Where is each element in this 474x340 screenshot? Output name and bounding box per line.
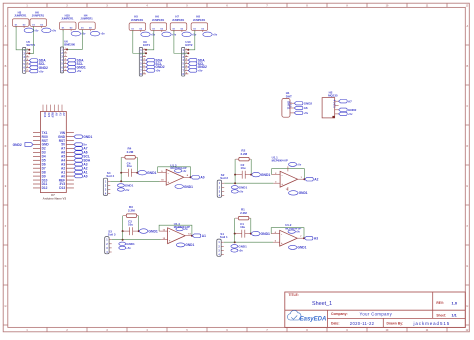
svg-text:+5v: +5v	[192, 34, 197, 37]
svg-text:+5v: +5v	[198, 69, 203, 73]
capacitor C2 10u	[241, 163, 246, 178]
svg-text:SHT71: SHT71	[26, 43, 35, 47]
EasyEDA logo	[287, 310, 326, 322]
wire resistor right leg	[136, 157, 138, 172]
net flag A0 on U7 right pin A0	[74, 174, 88, 178]
svg-text:Arduino Nano V3: Arduino Nano V3	[43, 197, 67, 201]
header H1 DHT	[282, 91, 294, 117]
svg-text:A3: A3	[314, 237, 318, 241]
svg-text:2.2M: 2.2M	[241, 152, 248, 156]
svg-text:A2: A2	[61, 166, 65, 170]
svg-text:+5v: +5v	[34, 30, 39, 33]
op-amp U1.4 MCP6004	[159, 222, 192, 243]
svg-text:C: C	[466, 105, 468, 108]
svg-text:+: +	[167, 180, 169, 184]
svg-text:1: 1	[186, 48, 187, 50]
svg-text:REV:: REV:	[436, 301, 443, 305]
op-amp U1.3 MCP6004	[158, 163, 191, 185]
net flag SCL on U6 pin 5	[67, 62, 83, 66]
header H5	[129, 14, 146, 32]
net flag A6 on H1	[294, 106, 308, 110]
svg-text:7: 7	[65, 69, 66, 71]
net flag +5v on sensor pin 3	[119, 246, 131, 250]
op-amp U1.2 MCP6004	[271, 223, 304, 246]
svg-text:7: 7	[27, 70, 28, 72]
net flag GND1 at node	[139, 229, 158, 234]
svg-text:6: 6	[27, 66, 28, 68]
svg-text:D8: D8	[42, 170, 46, 174]
svg-text:D10: D10	[42, 178, 48, 182]
svg-text:-: -	[169, 229, 170, 233]
net flag GND1 on sensor pin 2	[231, 186, 247, 190]
svg-text:A7: A7	[61, 147, 65, 151]
net flag GND1 at node	[252, 172, 271, 177]
net flag +5v on H2	[339, 112, 353, 116]
net flag GND1 on sensor pin 2	[117, 184, 133, 188]
svg-text:A2: A2	[83, 166, 87, 170]
net flag A3 output	[304, 236, 318, 240]
svg-text:A6: A6	[83, 151, 87, 155]
svg-text:D9: D9	[42, 174, 46, 178]
svg-text:GND1: GND1	[147, 171, 157, 175]
svg-text:10u: 10u	[240, 225, 245, 229]
svg-text:3: 3	[27, 56, 28, 58]
wire resistor right leg	[250, 159, 252, 174]
svg-text:DHT: DHT	[286, 95, 292, 99]
header H3	[12, 10, 29, 28]
resistor R4 2.2M	[122, 147, 137, 159]
svg-text:7: 7	[144, 69, 145, 71]
svg-text:A7: A7	[83, 147, 87, 151]
svg-text:REF: REF	[59, 178, 65, 182]
net flag GND1 at node	[251, 231, 270, 236]
svg-text:5: 5	[144, 62, 145, 64]
svg-text:GND1: GND1	[299, 191, 308, 195]
svg-text:SDA: SDA	[83, 159, 90, 163]
+5V net flag under H7	[182, 32, 197, 37]
header H4	[79, 14, 96, 32]
wire from header pin to U9 pin 2	[133, 30, 147, 54]
svg-text:8: 8	[186, 72, 187, 74]
+5V net flag under H10	[71, 31, 86, 36]
svg-text:5: 5	[27, 63, 28, 65]
net flag GND1 op-amp V- pin 11	[286, 187, 308, 195]
svg-text:GND1: GND1	[298, 246, 307, 250]
svg-text:H5: H5	[134, 14, 138, 18]
svg-text:A5: A5	[61, 155, 65, 159]
svg-text:GND1: GND1	[83, 135, 92, 139]
net flag +5v on H1	[294, 111, 308, 115]
net flag GND1 on sensor pin 2	[231, 245, 247, 249]
net flag SCL on U9 pin 5	[146, 62, 162, 66]
+5V net flag under H6	[162, 32, 177, 37]
svg-text:GND1: GND1	[148, 229, 158, 233]
svg-text:D13: D13	[59, 186, 65, 190]
svg-text:U1.4: U1.4	[174, 222, 180, 226]
svg-text:RST: RST	[59, 139, 65, 143]
svg-text:H: H	[5, 305, 7, 308]
svg-text:+5v: +5v	[155, 69, 160, 73]
svg-text:Soil 4: Soil 4	[106, 174, 114, 178]
svg-text:-: -	[168, 171, 169, 175]
connector U9 EXT1	[139, 40, 150, 76]
+5V net flag under H3	[24, 28, 39, 33]
svg-text:A2: A2	[314, 178, 318, 182]
net flag 5v on U7 right pin 5V	[74, 143, 87, 147]
svg-text:GND: GND	[42, 143, 50, 147]
wire node row	[234, 233, 252, 235]
svg-text:10u: 10u	[241, 166, 246, 170]
svg-text:1: 1	[144, 48, 145, 50]
svg-text:+5v: +5v	[151, 34, 156, 37]
svg-text:C: C	[5, 105, 7, 108]
svg-text:MQ135: MQ135	[328, 93, 338, 97]
wire resistor left leg	[234, 218, 236, 233]
net flag SDA on U10 pin 4	[188, 58, 205, 62]
net flag GND2 on U10 pin 6	[188, 65, 207, 69]
wire node row	[234, 174, 252, 176]
svg-text:+: +	[281, 241, 283, 245]
svg-text:A0: A0	[83, 174, 87, 178]
svg-text:1.0: 1.0	[452, 300, 458, 305]
svg-text:D12: D12	[42, 186, 48, 190]
svg-text:D4: D4	[42, 155, 46, 159]
svg-text:+5v: +5v	[52, 30, 57, 33]
svg-text:2.2M: 2.2M	[127, 150, 134, 154]
wire resistor left leg	[122, 216, 124, 231]
svg-text:H4: H4	[84, 14, 88, 18]
svg-text:3: 3	[144, 55, 145, 57]
wire from header pin to U10 pin 2	[174, 30, 189, 54]
net flag A2 on U7 right pin A2	[74, 166, 88, 170]
svg-text:G: G	[5, 265, 7, 268]
wire from header pin to U9 pin 1	[145, 30, 154, 50]
wire node vertical	[120, 173, 122, 182]
IC U7 Arduino Nano V3 body	[33, 105, 74, 201]
net flag GND1 at node	[138, 170, 157, 175]
net flag GND1 on U7 right pin GND	[74, 135, 93, 139]
svg-text:G: G	[466, 265, 468, 268]
svg-text:GND2: GND2	[13, 143, 22, 147]
header H10	[59, 14, 76, 32]
wire sensor signal to op-amp in+	[224, 234, 273, 244]
svg-text:6: 6	[144, 66, 145, 68]
svg-text:U1.1: U1.1	[272, 156, 278, 160]
connector S1 Soil 1	[217, 232, 228, 257]
svg-text:5v: 5v	[83, 143, 87, 147]
svg-text:Drawn By:: Drawn By:	[387, 322, 404, 326]
svg-text:VIN: VIN	[60, 131, 66, 135]
net flag SCL on U7 right pin A5	[74, 155, 90, 159]
svg-text:H: H	[466, 305, 468, 308]
svg-text:D6: D6	[42, 162, 46, 166]
net flag GND1 on U6 pin 6	[67, 65, 86, 69]
svg-text:A0: A0	[200, 176, 204, 180]
svg-text:D3: D3	[42, 151, 46, 155]
wire from header pin to U10 pin 1	[187, 30, 195, 50]
svg-text:GND2: GND2	[304, 101, 313, 105]
header H8	[191, 14, 208, 32]
svg-text:GND1: GND1	[238, 245, 247, 249]
svg-text:D11: D11	[42, 182, 48, 186]
svg-text:GND1: GND1	[185, 243, 194, 247]
svg-text:A4: A4	[61, 159, 65, 163]
wire feedback loop	[158, 167, 192, 179]
net flag SCL on U10 pin 5	[188, 62, 204, 66]
header H6	[150, 14, 167, 32]
svg-text:GND1: GND1	[261, 173, 271, 177]
svg-text:+5v: +5v	[39, 69, 44, 73]
svg-text:1: 1	[27, 48, 28, 50]
wire sensor signal to op-amp in+	[224, 175, 273, 185]
net flag GND2 on U9 pin 6	[146, 65, 165, 69]
wire node row	[122, 230, 140, 232]
net flag GND1 op-amp V-	[176, 243, 194, 247]
svg-text:H10: H10	[65, 14, 71, 18]
svg-text:+: +	[169, 238, 171, 242]
svg-text:A6: A6	[304, 106, 308, 110]
svg-text:+5v: +5v	[77, 69, 82, 73]
net flag GND2 on U5 pin 6	[29, 66, 48, 70]
net flag GND1 op-amp V-	[288, 245, 306, 249]
svg-text:-: -	[282, 173, 283, 177]
svg-text:3: 3	[65, 55, 66, 57]
wire feedback loop	[272, 169, 306, 181]
net flag GND2 on U7 GND left pin	[13, 143, 33, 147]
svg-text:10u: 10u	[127, 164, 132, 168]
header H6	[30, 10, 47, 28]
net flag +5v op-amp V+	[288, 230, 301, 234]
net flag +5v on U10 pin 7	[188, 69, 203, 73]
connector U5 SHT71	[23, 40, 36, 73]
svg-text:D: D	[466, 145, 468, 148]
wire resistor left leg	[234, 159, 236, 174]
wire from header pin to U6 pin 1	[66, 30, 82, 51]
net flag GND1 op-amp V-	[175, 185, 193, 189]
svg-text:RX0: RX0	[42, 135, 48, 139]
svg-text:A: A	[466, 25, 468, 28]
svg-text:D2: D2	[42, 147, 46, 151]
net flag A6 on U7 right pin A6	[74, 151, 88, 155]
wire feedback loop	[159, 225, 193, 237]
capacitor C1 10u	[240, 222, 245, 237]
svg-text:1/1: 1/1	[452, 313, 457, 317]
svg-text:GND1: GND1	[184, 185, 193, 189]
+5V net flag under H4	[90, 31, 105, 36]
net flag +5v op-amp V+	[175, 169, 188, 173]
svg-text:1: 1	[65, 48, 66, 50]
resistor R2 2.2M	[236, 149, 251, 161]
svg-text:Soil 3: Soil 3	[108, 233, 116, 237]
svg-text:H7: H7	[175, 14, 179, 18]
header H2 MQ135	[322, 91, 339, 118]
net flag A7 on U7 right pin A7	[74, 147, 88, 151]
svg-text:RST: RST	[42, 139, 48, 143]
svg-text:B: B	[5, 65, 7, 68]
svg-text:5: 5	[186, 62, 187, 64]
svg-text:Your Company: Your Company	[360, 312, 393, 317]
svg-text:A: A	[5, 25, 7, 28]
svg-text:A1: A1	[61, 170, 65, 174]
svg-text:EXT2: EXT2	[185, 43, 192, 47]
wire from H10 to U6	[62, 30, 64, 47]
connector U6 BME280	[60, 40, 75, 73]
svg-text:A7: A7	[348, 99, 352, 103]
svg-text:A1: A1	[202, 234, 206, 238]
svg-text:+5v: +5v	[100, 33, 105, 36]
net flag +5v on sensor pin 3	[231, 249, 243, 253]
wire node vertical	[122, 231, 124, 240]
svg-text:A3: A3	[61, 162, 65, 166]
svg-text:6: 6	[186, 66, 187, 68]
svg-text:Soil 2: Soil 2	[220, 176, 228, 180]
op-amp U1.1 MCP6004	[272, 156, 305, 188]
svg-text:A3: A3	[83, 162, 87, 166]
header H7	[170, 14, 187, 32]
svg-text:H3: H3	[18, 10, 22, 14]
connector S2 Soil 2	[217, 173, 228, 198]
net flag GND2 on H2	[339, 108, 357, 112]
svg-text:jackmead515: jackmead515	[413, 321, 451, 326]
svg-text:B: B	[466, 65, 468, 68]
svg-text:GND2: GND2	[348, 108, 357, 112]
svg-text:+5v: +5v	[213, 34, 218, 37]
wire node vertical	[234, 234, 236, 243]
net flag SDA on U9 pin 4	[146, 58, 163, 62]
capacitor C4 10u	[127, 161, 132, 176]
net flag SCL on U5 pin 5	[29, 62, 45, 66]
capacitor C3 10u	[128, 220, 133, 235]
svg-text:7: 7	[186, 69, 187, 71]
net flag A2 output	[305, 177, 319, 181]
svg-text:Sheet_1: Sheet_1	[312, 301, 332, 307]
svg-text:SCL: SCL	[83, 155, 89, 159]
wire resistor left leg	[120, 157, 122, 172]
svg-text:GND: GND	[58, 135, 66, 139]
svg-text:Sheet:: Sheet:	[436, 313, 446, 317]
svg-text:8: 8	[144, 72, 145, 74]
svg-text:Company:: Company:	[331, 312, 348, 316]
net flag +5v op-amp V+	[176, 227, 189, 231]
svg-text:A1: A1	[83, 170, 87, 174]
svg-text:1 2 3: 1 2 3	[288, 102, 291, 108]
+5V net flag under H8	[203, 32, 218, 37]
svg-text:A0: A0	[61, 174, 65, 178]
net flag SDA on U5 pin 4	[29, 59, 46, 63]
wire node vertical	[234, 175, 236, 184]
svg-text:+5v: +5v	[172, 34, 177, 37]
svg-text:2020-11-22: 2020-11-22	[350, 321, 375, 326]
connector S4 Soil 4	[103, 171, 114, 196]
net flag +5v on sensor pin 3	[117, 188, 129, 192]
svg-text:GND1: GND1	[125, 184, 134, 188]
wire feedback loop	[271, 228, 305, 240]
wire node row	[120, 172, 138, 174]
connector U10 EXT2	[182, 40, 193, 76]
net flag A3 on U7 right pin A3	[74, 162, 88, 166]
resistor R1 2.2M	[235, 208, 250, 220]
net flag A1 output	[192, 234, 206, 238]
svg-text:+5v: +5v	[81, 33, 86, 36]
svg-text:BME280: BME280	[64, 43, 75, 47]
net flag A0 output	[191, 176, 205, 180]
net flag +5v on sensor pin 3	[231, 190, 243, 194]
net flag GND1 on sensor pin 2	[119, 242, 135, 246]
svg-text:6: 6	[65, 66, 66, 68]
net flag +5v on U5 pin 7	[29, 69, 44, 73]
title block	[285, 292, 466, 327]
svg-text:Date:: Date:	[331, 322, 339, 326]
svg-text:2: 2	[27, 52, 28, 54]
wire from header pin to U5 pin 2	[28, 26, 33, 54]
svg-text:EasyEDA: EasyEDA	[300, 317, 327, 323]
svg-text:-: -	[281, 232, 282, 236]
net flag +5v on U9 pin 7	[146, 69, 161, 73]
svg-text:10u: 10u	[128, 222, 133, 226]
svg-text:U1.2: U1.2	[285, 223, 291, 227]
wire resistor right leg	[250, 218, 252, 233]
net flag SDA on U7 right pin A4	[74, 159, 91, 163]
svg-text:2.2M: 2.2M	[240, 211, 247, 215]
svg-text:2: 2	[65, 52, 66, 54]
resistor R3 2.2M	[123, 205, 138, 217]
net flag A7 on H2	[339, 99, 353, 103]
+5V net flag under H6	[42, 28, 57, 33]
svg-text:2.2M: 2.2M	[128, 208, 135, 212]
svg-text:EXT1: EXT1	[143, 43, 150, 47]
svg-text:Soil 1: Soil 1	[220, 235, 228, 239]
wire from header pin to U5 pin 1	[16, 26, 30, 50]
wire sensor signal to op-amp in+	[110, 173, 159, 183]
net flag A1 on U7 right pin A1	[74, 170, 88, 174]
net flag +5v on U6 pin 7	[67, 69, 82, 73]
svg-text:D: D	[5, 145, 7, 148]
net flag SDA on U6 pin 4	[67, 58, 84, 62]
svg-text:D5: D5	[42, 159, 46, 163]
svg-text:TITLE:: TITLE:	[289, 293, 299, 297]
+5V net flag under H5	[141, 32, 156, 37]
svg-text:TX1: TX1	[42, 131, 48, 135]
svg-text:5: 5	[65, 62, 66, 64]
svg-text:H6: H6	[155, 14, 159, 18]
svg-text:GND1: GND1	[126, 242, 135, 246]
svg-text:D7: D7	[42, 166, 46, 170]
svg-text:GND1: GND1	[261, 232, 271, 236]
wire sensor signal to op-amp in+	[112, 231, 161, 241]
net flag GND2 on H1	[294, 101, 312, 105]
svg-text:H8: H8	[196, 14, 200, 18]
net flag +5v op-amp V+ pin 4	[288, 162, 302, 171]
wire resistor right leg	[138, 216, 140, 231]
connector S3 Soil 3	[105, 230, 116, 255]
svg-text:GND1: GND1	[239, 186, 248, 190]
svg-text:3V3: 3V3	[59, 182, 65, 186]
svg-text:A6: A6	[61, 151, 65, 155]
svg-text:3: 3	[186, 55, 187, 57]
svg-text:H6: H6	[35, 10, 39, 14]
svg-text:+: +	[281, 182, 283, 186]
